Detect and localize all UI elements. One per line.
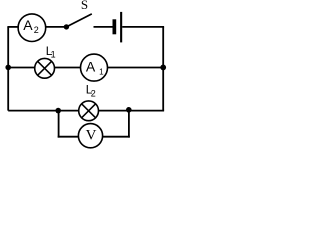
svg-text:1: 1: [99, 68, 104, 77]
node dot left row3: [55, 108, 61, 114]
wire left drop to voltmeter row: [58, 111, 60, 138]
switch S: [64, 14, 113, 30]
ammeter A1: [81, 54, 108, 81]
wire A2 to switch: [46, 26, 66, 28]
lamp L2: [79, 101, 99, 121]
ammeter A2: [18, 14, 46, 42]
label L2: [86, 82, 96, 98]
wire A1 to right vertical: [107, 67, 163, 69]
wire row3 dot to L2: [58, 110, 79, 112]
svg-text:A: A: [86, 58, 96, 74]
svg-text:2: 2: [34, 25, 39, 35]
svg-text:2: 2: [91, 89, 96, 99]
wire L2 to right dot: [98, 110, 128, 112]
wire right vertical: [162, 27, 164, 111]
svg-text:S: S: [81, 0, 88, 12]
wire top row to A2: [7, 26, 19, 28]
wire row3 right segment: [129, 110, 164, 112]
node dot right row3: [126, 107, 132, 113]
wire bottom row right: [103, 136, 130, 138]
label L1: [46, 44, 56, 60]
wire row3 left segment: [8, 110, 58, 112]
wire row2 to L1: [8, 67, 35, 69]
node dot right row2: [160, 65, 166, 71]
wire left vertical: [7, 27, 9, 111]
node dot left row2: [5, 65, 11, 71]
svg-text:1: 1: [51, 50, 56, 60]
wire right drop to voltmeter row: [128, 110, 130, 138]
wire L1 to A1: [55, 67, 82, 69]
svg-text:A: A: [23, 17, 33, 33]
wire battery to right corner: [122, 26, 164, 28]
battery: [113, 12, 123, 43]
wire bottom row left: [58, 136, 79, 138]
voltmeter V: [78, 124, 102, 148]
lamp L1: [35, 58, 55, 78]
svg-text:V: V: [86, 128, 97, 144]
